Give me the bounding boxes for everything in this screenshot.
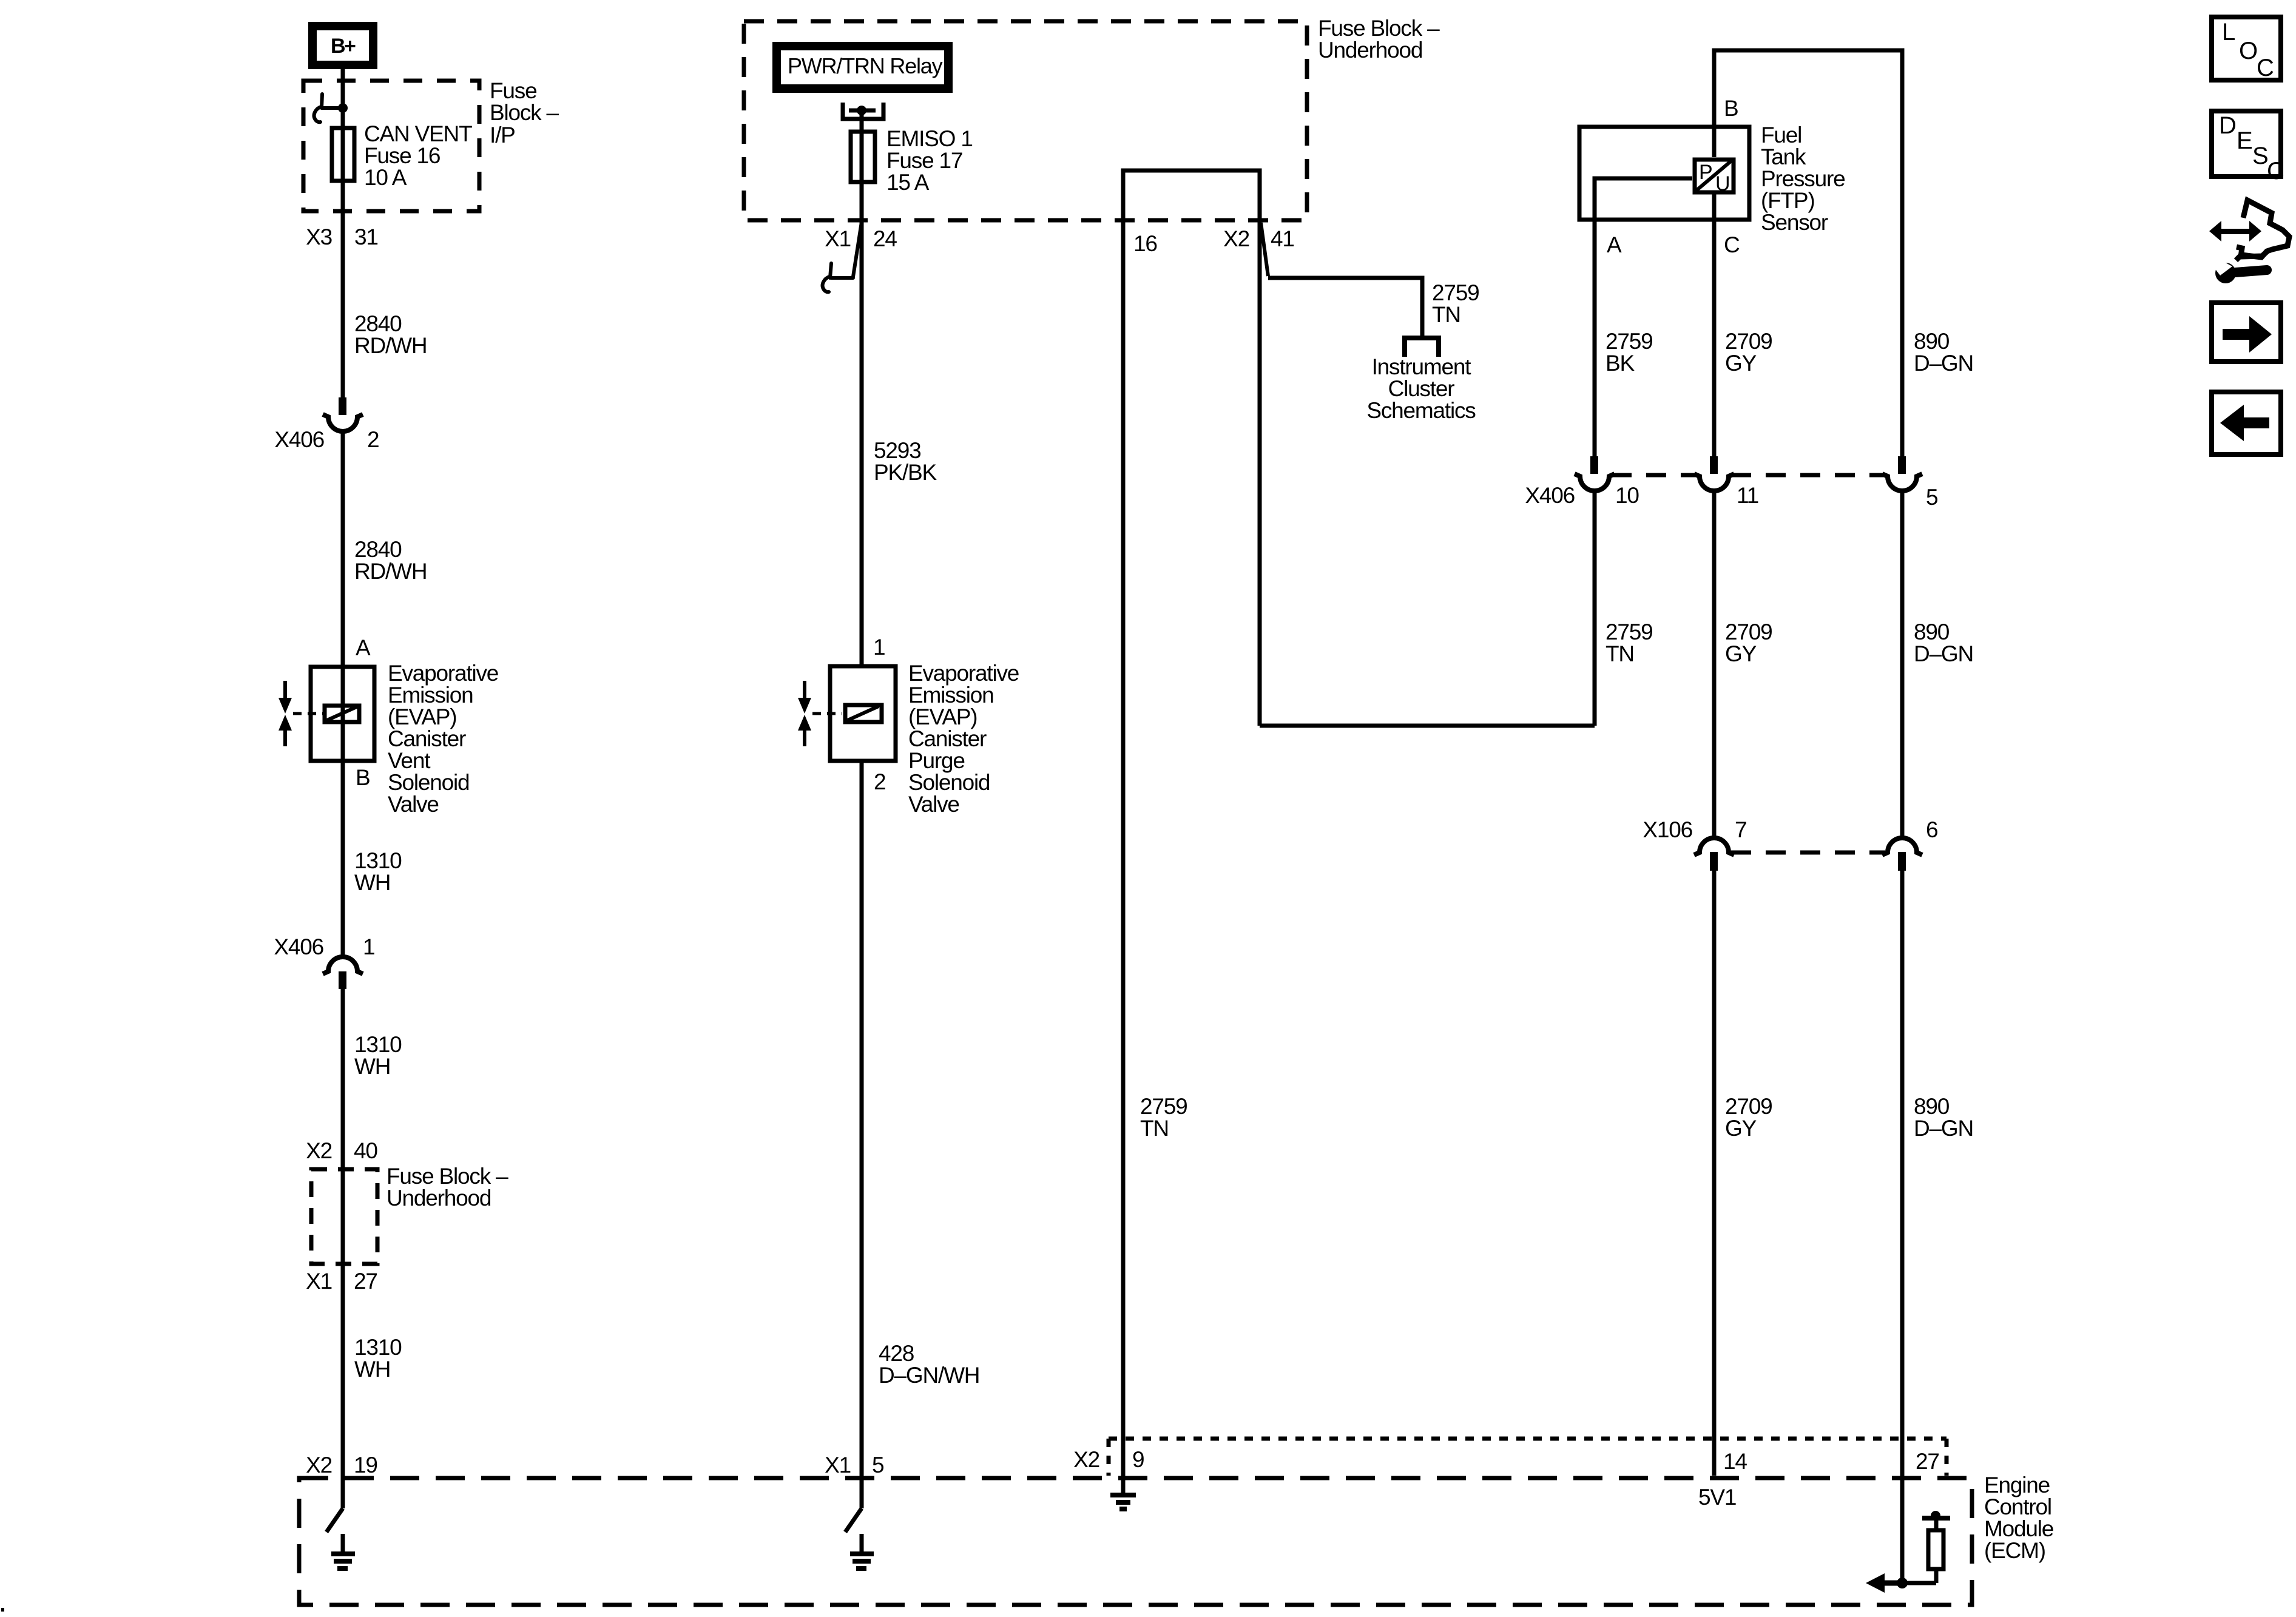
PWR/TRN Relay box (777, 46, 948, 89)
svg-text:24: 24 (873, 226, 897, 251)
svg-text:27: 27 (354, 1269, 377, 1294)
svg-text:(FTP): (FTP) (1761, 188, 1815, 213)
wire 428 D-GN/WH label (879, 1341, 979, 1388)
svg-text:X3: X3 (306, 224, 332, 249)
svg-text:X2: X2 (306, 1453, 332, 1477)
svg-text:Canister: Canister (908, 726, 987, 751)
pin X2 9 (1073, 1447, 1144, 1472)
svg-text:Canister: Canister (388, 726, 466, 751)
connector X406 pin 5 (1882, 456, 1938, 510)
svg-text:Tank: Tank (1761, 144, 1806, 169)
svg-text:5293: 5293 (874, 438, 921, 463)
svg-text:U: U (1715, 172, 1729, 195)
pin X2 40 (306, 1138, 377, 1163)
svg-text:16: 16 (1133, 231, 1157, 256)
wire A to X406/10 (2759 BK) (1593, 221, 1597, 458)
svg-text:D–GN: D–GN (1914, 641, 1973, 666)
svg-text:O: O (2239, 38, 2257, 64)
EVAP canister purge solenoid valve (798, 635, 896, 794)
svg-text:X106: X106 (1643, 817, 1692, 842)
pin X1 5 (825, 1453, 884, 1477)
svg-text:X406: X406 (274, 934, 323, 959)
Fuse Block - Underhood dashed box (744, 21, 1307, 220)
svg-text:2840: 2840 (354, 537, 402, 562)
wire 1310 WH label 2 (354, 1032, 402, 1079)
svg-text:Underhood: Underhood (387, 1186, 491, 1210)
svg-text:Purge: Purge (908, 748, 965, 773)
wire B up and over to 890 (1714, 50, 1902, 458)
EVAP vent valve label (388, 661, 498, 817)
svg-text:10: 10 (1615, 483, 1639, 508)
svg-text:X406: X406 (1525, 483, 1575, 508)
svg-text:2840: 2840 (354, 311, 402, 336)
svg-text:C: C (2267, 158, 2284, 184)
FTP sensor box (1579, 127, 1749, 220)
Fuel Tank Pressure (FTP) Sensor label (1761, 123, 1845, 235)
svg-text:X406: X406 (274, 427, 324, 452)
svg-text:Fuse: Fuse (490, 78, 536, 103)
Fuse Block - Underhood label (1318, 16, 1440, 62)
pin X2 19 (306, 1453, 377, 1477)
wire X406/5 down (890 D-GN) (1900, 490, 1905, 837)
svg-text:5: 5 (872, 1453, 884, 1477)
svg-text:TN: TN (1432, 302, 1460, 327)
svg-text:Solenoid: Solenoid (908, 770, 990, 795)
wire B+ to fuse block I/P (341, 69, 345, 399)
connector X406 pin 2 (274, 397, 379, 452)
wire 2759 TN label (col 16) (1140, 1094, 1187, 1141)
connector X106 pin 6 (1882, 817, 1937, 871)
svg-text:Module: Module (1984, 1516, 2053, 1541)
fuse EMISO 1 Fuse 17 15 A (851, 126, 973, 195)
svg-text:890: 890 (1914, 329, 1950, 354)
wire X106/6 to ECM pin 27 (890 D-GN) (1900, 871, 1905, 1583)
svg-text:Valve: Valve (388, 792, 439, 817)
svg-text:A: A (356, 635, 371, 660)
DESC hotlink icon (2212, 111, 2284, 184)
svg-text:(EVAP): (EVAP) (908, 704, 977, 729)
wire X406/2 to EVAP vent valve (341, 431, 345, 956)
svg-text:Fuel: Fuel (1761, 123, 1801, 147)
svg-text:2709: 2709 (1725, 329, 1772, 354)
fuse block internal hook at X1/24 (823, 263, 853, 292)
svg-text:2: 2 (367, 427, 379, 452)
wire 2759 TN label (branch) (1432, 280, 1479, 327)
svg-text:TN: TN (1606, 641, 1634, 666)
svg-text:B: B (1724, 96, 1738, 121)
svg-text:1: 1 (363, 934, 374, 959)
svg-text:GY: GY (1725, 351, 1757, 376)
svg-text:7: 7 (1735, 817, 1746, 842)
svg-text:D: D (2219, 112, 2236, 139)
svg-text:B+: B+ (331, 35, 356, 58)
wire 1310 WH label (354, 848, 402, 895)
connector X406 pin 1 (274, 934, 374, 989)
Instrument Cluster Schematics label (1366, 354, 1476, 423)
svg-text:GY: GY (1725, 1116, 1757, 1141)
fuse block internal jumper 16 to 41 (1123, 170, 1260, 220)
forward arrow hotlink icon (2212, 303, 2281, 362)
connector end view / tools icon (2209, 200, 2289, 283)
svg-text:X2: X2 (1073, 1447, 1099, 1472)
svg-text:890: 890 (1914, 619, 1950, 644)
back arrow hotlink icon (2212, 392, 2281, 454)
svg-text:Emission: Emission (908, 683, 994, 707)
svg-text:41: 41 (1271, 226, 1294, 251)
wire 2709 GY label (1725, 329, 1772, 376)
svg-text:2759: 2759 (1140, 1094, 1187, 1119)
svg-text:Fuse Block –: Fuse Block – (1318, 16, 1440, 41)
ECM dashed box (299, 1478, 1972, 1605)
wire 2840 RD/WH label 2 (354, 537, 427, 584)
X106 harness dashed link (1731, 851, 1885, 855)
svg-text:2759: 2759 (1432, 280, 1479, 305)
svg-text:(ECM): (ECM) (1984, 1538, 2045, 1563)
fuse CAN VENT Fuse 16 10 A (332, 121, 472, 190)
wire X406/1 to ECM (341, 989, 345, 1508)
svg-text:2759: 2759 (1606, 619, 1653, 644)
LOC hotlink icon (2212, 17, 2281, 81)
wire 5293 PK/BK label (874, 438, 937, 485)
svg-text:(EVAP): (EVAP) (388, 704, 456, 729)
svg-text:1310: 1310 (354, 1032, 402, 1057)
svg-text:15 A: 15 A (886, 170, 930, 195)
svg-text:I/P: I/P (490, 123, 515, 147)
svg-text:S: S (2252, 143, 2268, 169)
wire 1310 WH label 3 (354, 1335, 402, 1382)
EVAP canister vent solenoid valve (279, 635, 374, 790)
svg-text:X2: X2 (306, 1138, 332, 1163)
svg-text:Block –: Block – (490, 100, 559, 125)
svg-text:Solenoid: Solenoid (388, 770, 469, 795)
wire purge valve to ECM (860, 761, 864, 1508)
svg-text:C: C (1724, 232, 1740, 257)
junction dot (338, 103, 348, 113)
svg-text:2709: 2709 (1725, 1094, 1772, 1119)
svg-text:890: 890 (1914, 1094, 1950, 1119)
svg-text:Schematics: Schematics (1366, 398, 1476, 423)
ECM driver switch contact at X1/5 (845, 1508, 862, 1532)
wire X406/11 down (2709 GY) (1712, 490, 1717, 837)
branch wire to instrument cluster (1268, 278, 1422, 336)
wire C to X406/11 (2709 GY) (1712, 194, 1717, 458)
ECM driver switch contact at X2/19 (326, 1508, 343, 1532)
svg-text:PK/BK: PK/BK (874, 460, 937, 485)
ECM internal pull-up circuit at pin 27 (1866, 1511, 1950, 1593)
svg-text:B: B (356, 765, 370, 790)
internal feed hook symbol (314, 94, 343, 122)
svg-text:Evaporative: Evaporative (908, 661, 1019, 686)
svg-text:RD/WH: RD/WH (354, 559, 427, 584)
svg-text:Valve: Valve (908, 792, 959, 817)
Fuse Block - I/P dashed box (303, 81, 479, 211)
svg-text:Instrument: Instrument (1372, 354, 1472, 379)
svg-text:GY: GY (1725, 641, 1757, 666)
svg-text:Sensor: Sensor (1761, 210, 1828, 235)
ground inside ECM (middle) (850, 1534, 874, 1571)
connector X406 pin 11 (1694, 456, 1758, 508)
svg-text:TN: TN (1140, 1116, 1169, 1141)
svg-text:X1: X1 (306, 1269, 332, 1294)
svg-text:1310: 1310 (354, 848, 402, 873)
ground inside ECM (left) (331, 1534, 355, 1571)
off-page connector to instrument cluster (1405, 338, 1439, 357)
FTP internal wire to pin A (1595, 178, 1692, 221)
svg-text:6: 6 (1926, 817, 1937, 842)
B+ power feed box (312, 26, 373, 65)
wire X406/10 down (2759 TN) (1593, 490, 1597, 726)
relay output terminal bracket (843, 103, 883, 119)
svg-text:Emission: Emission (388, 683, 473, 707)
wire 2759 BK label (1606, 329, 1653, 376)
ground inside ECM at X2/9 (1110, 1476, 1136, 1511)
svg-text:428: 428 (879, 1341, 914, 1366)
svg-text:Evaporative: Evaporative (388, 661, 498, 686)
page artifact dot (1, 1608, 4, 1612)
svg-text:Fuse Block –: Fuse Block – (387, 1164, 508, 1189)
wire 890 D-GN label (1914, 329, 1973, 376)
ECM X2 connector dashed outline (1109, 1439, 1947, 1476)
svg-text:D–GN: D–GN (1914, 1116, 1973, 1141)
svg-text:5: 5 (1926, 485, 1938, 510)
Fuse Block - Underhood pass-through dashed box (311, 1164, 508, 1264)
svg-text:Vent: Vent (388, 748, 431, 773)
svg-text:Control: Control (1984, 1494, 2051, 1519)
connector X406 pin 10 (1525, 456, 1639, 508)
svg-text:9: 9 (1132, 1447, 1144, 1472)
svg-text:D–GN: D–GN (1914, 351, 1973, 376)
svg-text:E: E (2237, 127, 2252, 154)
svg-text:Pressure: Pressure (1761, 166, 1845, 191)
svg-text:WH: WH (354, 870, 390, 895)
connector X106 pin 7 (1643, 817, 1746, 871)
Engine Control Module (ECM) label (1984, 1473, 2053, 1563)
svg-text:EMISO 1: EMISO 1 (886, 126, 973, 151)
svg-text:14: 14 (1723, 1449, 1747, 1474)
svg-text:RD/WH: RD/WH (354, 333, 427, 358)
wire 2840 RD/WH label (354, 311, 427, 358)
svg-text:Fuse 16: Fuse 16 (364, 143, 440, 168)
svg-text:Underhood: Underhood (1318, 38, 1422, 62)
svg-text:PWR/TRN Relay: PWR/TRN Relay (788, 53, 943, 78)
svg-text:5V1: 5V1 (1698, 1485, 1736, 1510)
pin X1 27 (306, 1269, 377, 1294)
svg-text:2759: 2759 (1606, 329, 1653, 354)
svg-text:40: 40 (354, 1138, 377, 1163)
svg-text:1: 1 (873, 635, 885, 660)
svg-text:19: 19 (354, 1453, 377, 1477)
svg-text:31: 31 (354, 224, 378, 249)
svg-text:1310: 1310 (354, 1335, 402, 1360)
wire X2/41 down (1258, 220, 1262, 726)
svg-text:WH: WH (354, 1357, 390, 1382)
svg-text:X1: X1 (825, 226, 851, 251)
svg-text:27: 27 (1916, 1449, 1939, 1474)
svg-text:Cluster: Cluster (1388, 376, 1455, 401)
svg-text:10 A: 10 A (364, 165, 407, 190)
Fuse Block - I/P label (490, 78, 559, 147)
svg-text:Fuse 17: Fuse 17 (886, 148, 962, 173)
svg-text:Engine: Engine (1984, 1473, 2050, 1497)
svg-text:D–GN/WH: D–GN/WH (879, 1363, 979, 1388)
pin X2 41 (1223, 223, 1294, 276)
svg-text:L: L (2222, 19, 2235, 46)
svg-text:X1: X1 (825, 1453, 851, 1477)
svg-text:WH: WH (354, 1054, 390, 1079)
wire relay to fuse 17 (860, 110, 864, 666)
svg-text:A: A (1607, 232, 1622, 257)
svg-text:11: 11 (1737, 483, 1758, 508)
svg-text:P: P (1699, 161, 1712, 184)
wire 16 to ECM X2/9 (2759 TN) (1121, 220, 1126, 1476)
svg-text:2: 2 (874, 769, 885, 794)
svg-text:CAN VENT: CAN VENT (364, 121, 472, 146)
svg-text:C: C (2257, 55, 2274, 81)
wire X106/7 to ECM pin 14 (2709 GY) (1712, 871, 1717, 1476)
pin X1 24 (825, 222, 897, 277)
svg-text:X2: X2 (1223, 226, 1249, 251)
pin X3 31 (306, 224, 378, 249)
svg-text:2709: 2709 (1725, 619, 1772, 644)
X406 harness dashed links (1612, 473, 1697, 478)
EVAP purge valve label (908, 661, 1019, 817)
svg-text:BK: BK (1606, 351, 1635, 376)
wire 2759 TN bottom run (1260, 724, 1595, 728)
